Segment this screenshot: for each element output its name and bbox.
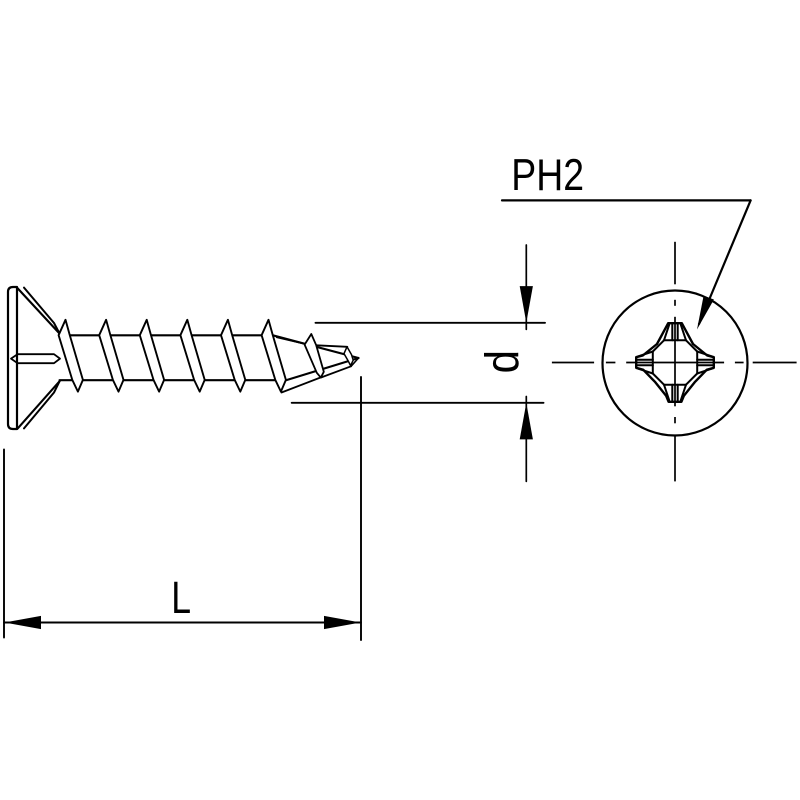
recess wing lines right arm: [697, 359, 714, 361]
thread fin 1: [59, 320, 83, 392]
head chamfer upper edge: [24, 288, 60, 334]
crest envelope lower 1: [282, 377, 321, 392]
thread fin 6: [262, 320, 286, 392]
recess tie line bottom arm: [664, 384, 686, 386]
horizontal centerline: [552, 362, 594, 364]
thread fin 2: [99, 320, 123, 392]
recess wing lines top arm: [671, 324, 673, 341]
crest envelope upper 2: [317, 345, 348, 347]
recess corner diagonal BR: [686, 374, 697, 385]
head chamfer lower edge: [24, 381, 60, 428]
thread fin 3: [140, 320, 164, 392]
L right extension line: [360, 377, 362, 640]
shank root bottom line + tip taper: [60, 358, 359, 380]
d arrow upper (points down): [520, 286, 533, 323]
head cone lower slant: [18, 381, 60, 428]
recess inner flanks top arm: [664, 325, 669, 341]
d upper extension line: [316, 322, 546, 324]
head cone upper slant: [17, 288, 60, 334]
recess corner diagonal TR: [686, 340, 697, 351]
L left extension line: [3, 450, 5, 638]
recess corner diagonal BL: [653, 374, 664, 385]
recess inner flanks left arm: [637, 352, 653, 357]
d lower extension line: [292, 402, 544, 404]
recess tie line left arm: [652, 352, 654, 374]
d arrow lower (points up): [520, 403, 533, 440]
crest envelope lower 3: [351, 358, 359, 366]
recess wing lines bottom arm: [671, 385, 673, 402]
d dimension line lower stem: [525, 397, 527, 482]
d dimension line upper stem: [525, 245, 527, 329]
recess tie line right arm: [696, 352, 698, 374]
recess tie line top arm: [664, 339, 686, 341]
recess corner diagonal TL: [653, 340, 664, 351]
vertical centerline: [674, 242, 676, 284]
svg-text:L: L: [171, 572, 191, 623]
crest envelope upper 1: [277, 337, 305, 344]
recess inner flanks bottom arm: [664, 385, 669, 401]
recess wing lines left arm: [636, 359, 653, 361]
svg-text:PH2: PH2: [511, 150, 584, 200]
screw head: flat cap (edge view): [8, 287, 17, 429]
thread fin 4: [180, 320, 204, 392]
L dimension line: [4, 622, 361, 624]
PH2 leader arrowhead: [697, 296, 714, 330]
thread fin 7 (on taper): [305, 334, 324, 378]
L arrow left (points left): [5, 616, 42, 629]
PH2 leader horizontal: [502, 199, 751, 201]
crest envelope lower 2: [321, 366, 351, 377]
head outline circle (top view): [603, 291, 748, 436]
thread fin 5: [221, 320, 245, 392]
recess slot (side view): [11, 354, 60, 363]
Phillips recess outer outline: [636, 323, 714, 402]
shank root top line + tip taper: [60, 335, 359, 358]
L arrow right (points right): [324, 616, 361, 629]
svg-text:d: d: [477, 350, 529, 373]
thread fin 8 (near tip): [344, 347, 353, 366]
recess inner flanks right arm: [697, 352, 713, 357]
PH2 leader diagonal: [699, 200, 751, 324]
